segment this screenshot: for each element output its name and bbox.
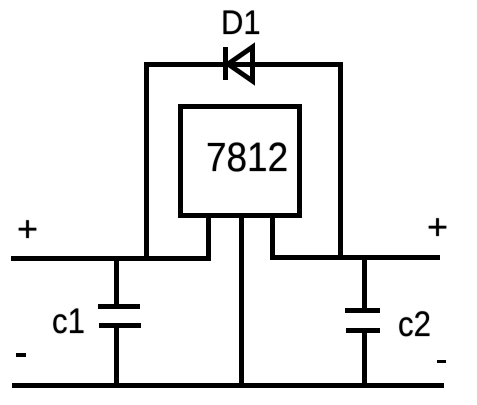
wire + output rail xyxy=(270,255,440,260)
label + (input) xyxy=(17,208,38,250)
wire ground bottom rail xyxy=(12,383,444,388)
pin 2 wire (box middle pin to ground rail) xyxy=(239,218,244,388)
capacitor C2 top lead xyxy=(362,255,367,308)
pin 3 wire (box right pin to output rail) xyxy=(270,218,275,260)
label + (output) xyxy=(427,206,448,248)
label - (output) xyxy=(437,360,446,363)
label 7812 xyxy=(206,134,288,181)
pin 1 wire (box left pin to input rail) xyxy=(206,218,211,261)
capacitor C2 bottom plate xyxy=(346,328,380,333)
wire top horizontal (diode net) xyxy=(144,62,343,67)
capacitor C2 bottom lead xyxy=(362,333,367,386)
capacitor C1 top plate xyxy=(98,304,140,309)
label c2 xyxy=(398,305,431,345)
wire + input rail xyxy=(11,256,211,261)
label - (input) xyxy=(16,353,26,357)
capacitor C1 bottom lead xyxy=(114,328,119,386)
label c1 xyxy=(52,302,85,342)
op-amp U1 regulator box 7812 xyxy=(178,104,302,218)
wire left vertical leg from top wire to + input rail xyxy=(144,62,149,261)
diode D1 xyxy=(215,38,265,90)
capacitor C2 top plate xyxy=(345,308,380,313)
label D1 xyxy=(221,4,261,43)
capacitor C1 bottom plate xyxy=(99,323,141,328)
capacitor C1 top lead xyxy=(114,256,119,304)
wire right vertical leg from top wire to + output rail xyxy=(338,62,343,260)
